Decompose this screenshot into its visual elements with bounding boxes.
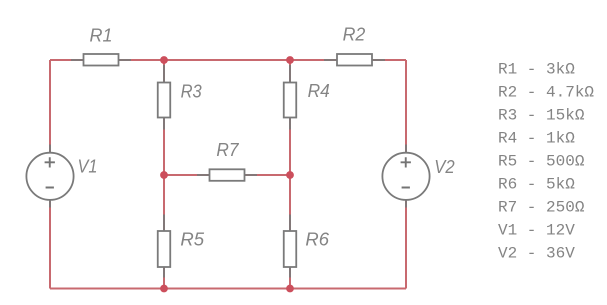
svg-text:R7: R7	[216, 140, 239, 160]
svg-text:R4: R4	[308, 81, 330, 101]
svg-text:R5 - 500Ω: R5 - 500Ω	[498, 153, 585, 171]
svg-text:V1: V1	[78, 157, 98, 177]
svg-text:V2 - 36V: V2 - 36V	[498, 245, 575, 263]
svg-text:R3 - 15kΩ: R3 - 15kΩ	[498, 107, 585, 125]
svg-text:R6 - 5kΩ: R6 - 5kΩ	[498, 176, 575, 194]
svg-text:R4 - 1kΩ: R4 - 1kΩ	[498, 130, 575, 148]
svg-text:R1 - 3kΩ: R1 - 3kΩ	[498, 61, 575, 79]
svg-text:R3: R3	[181, 82, 202, 102]
svg-text:R2: R2	[343, 25, 366, 45]
svg-text:V1 - 12V: V1 - 12V	[498, 222, 575, 240]
svg-text:R1: R1	[90, 26, 113, 46]
svg-text:R5: R5	[180, 230, 205, 250]
svg-text:V2: V2	[434, 157, 454, 177]
svg-text:R2 - 4.7kΩ: R2 - 4.7kΩ	[498, 84, 594, 102]
svg-text:R7 - 250Ω: R7 - 250Ω	[498, 199, 585, 217]
svg-text:R6: R6	[305, 230, 330, 250]
